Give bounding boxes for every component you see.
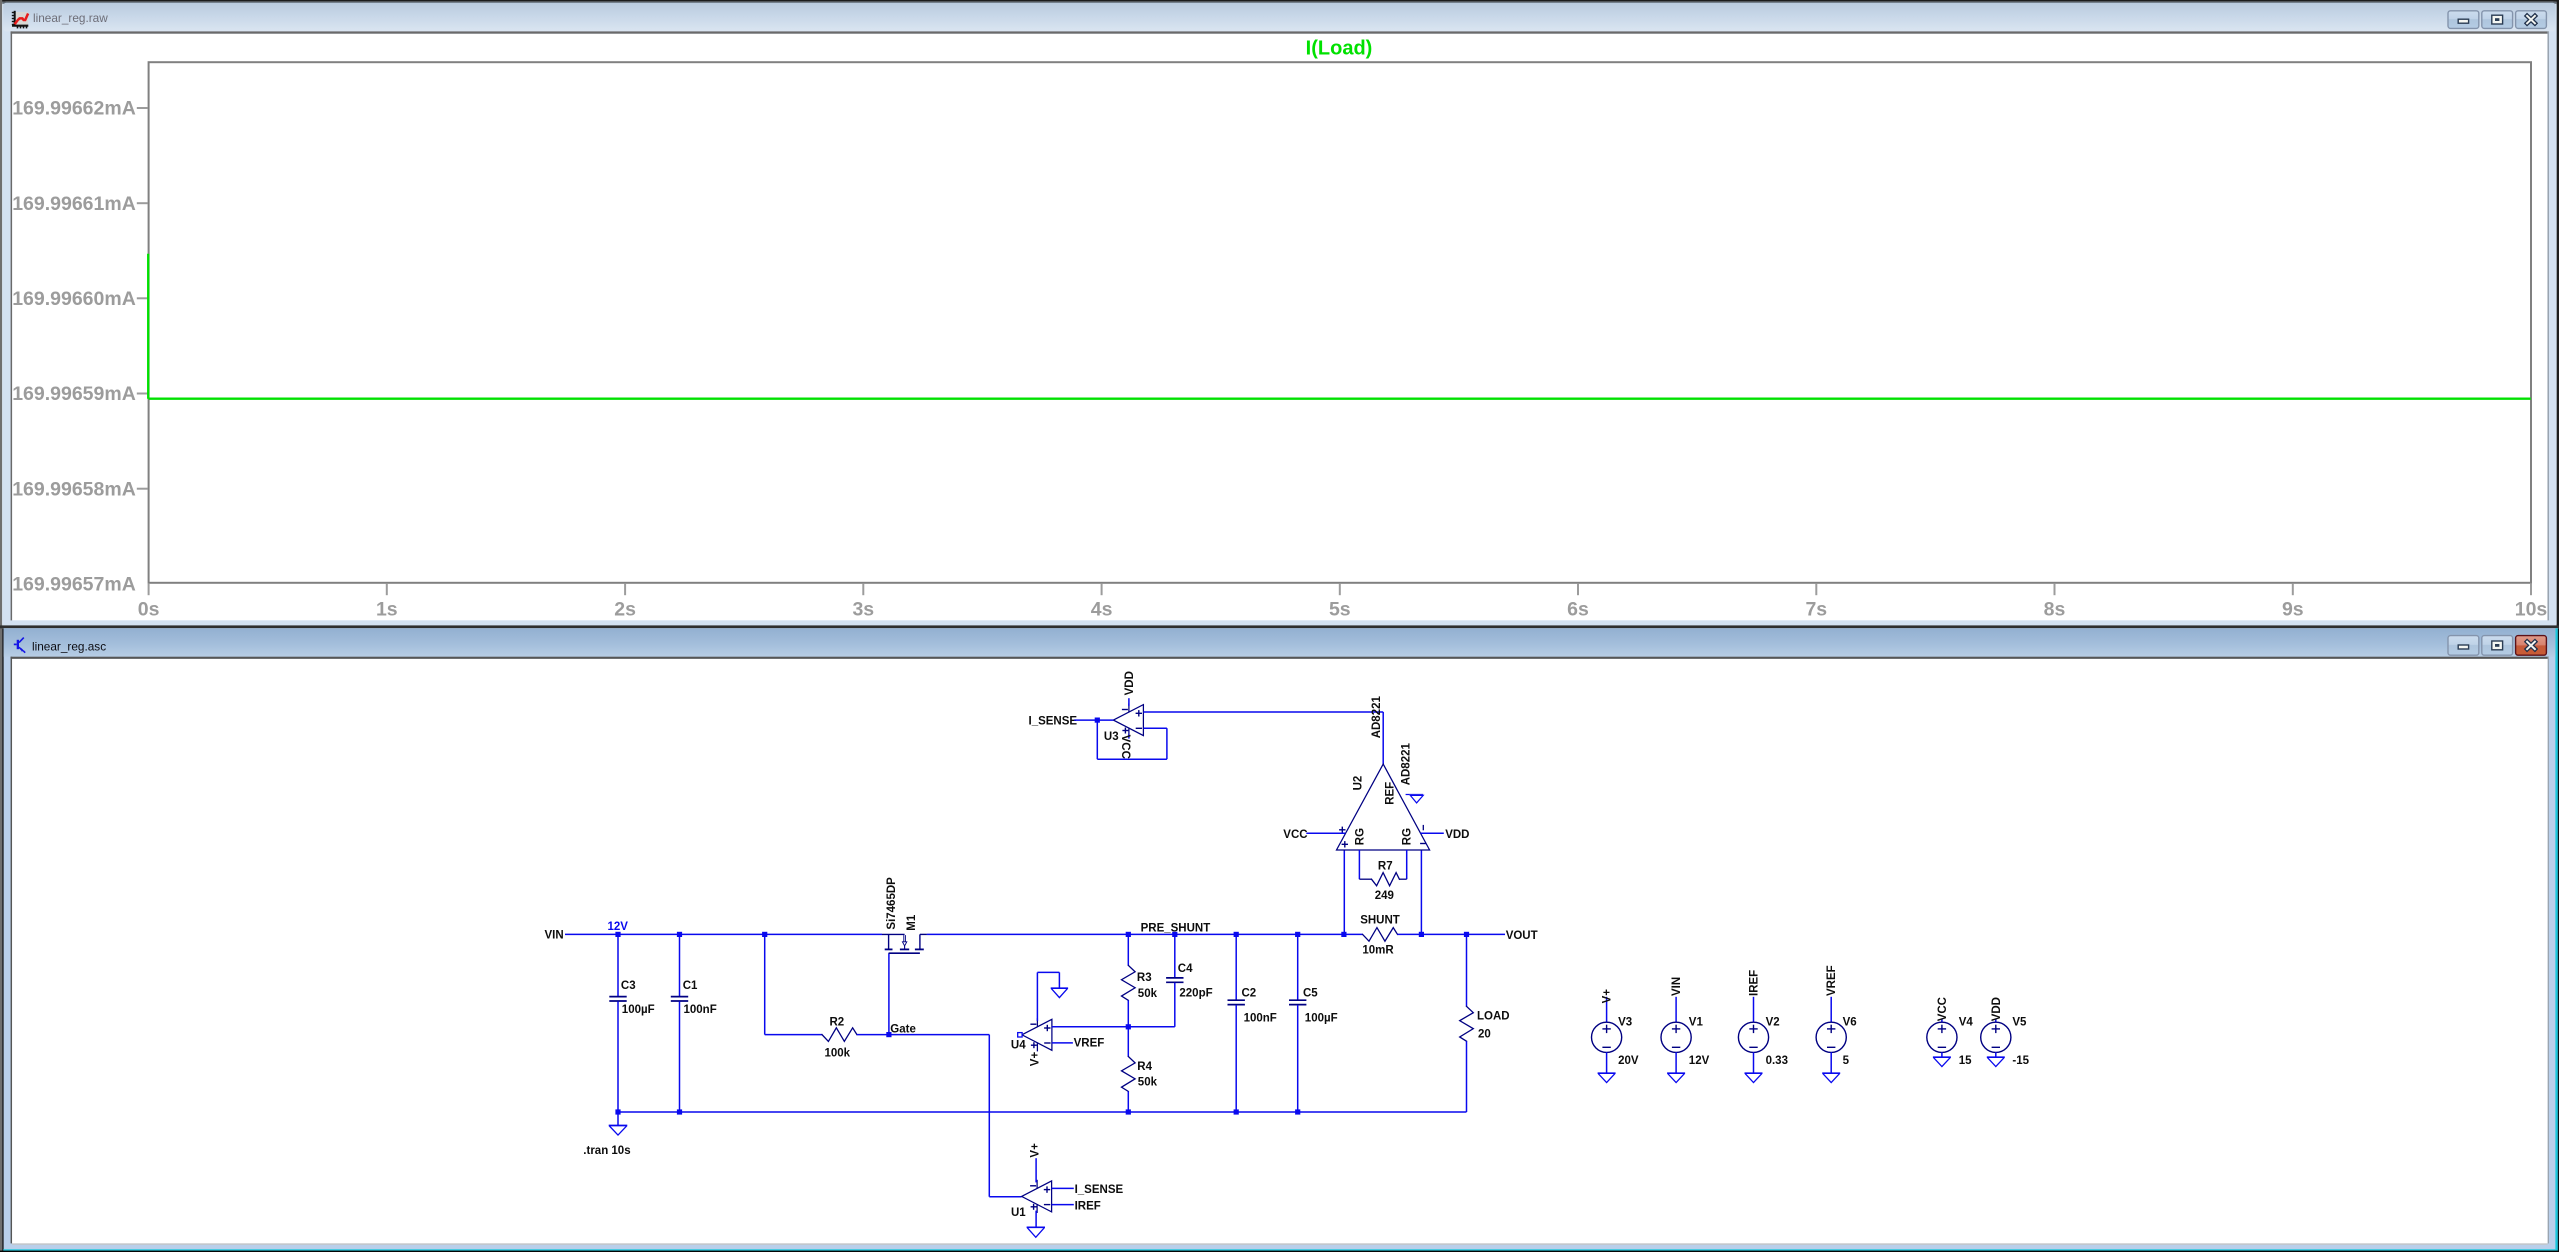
svg-text:12V: 12V (608, 921, 629, 933)
op-amp U1 (1011, 1180, 1052, 1219)
waveform window title text (33, 11, 108, 25)
svg-text:V4: V4 (1959, 1017, 1974, 1029)
svg-text:100nF: 100nF (684, 1004, 717, 1016)
svg-text:R7: R7 (1378, 861, 1393, 873)
schematic window close button (2516, 636, 2547, 656)
svg-text:V3: V3 (1618, 1017, 1632, 1029)
voltage source V6 5 (1816, 965, 1857, 1082)
svg-text:R2: R2 (830, 1016, 845, 1028)
svg-text:VDD: VDD (1124, 671, 1136, 695)
node Gate junction (886, 1024, 916, 1038)
svg-text:U1: U1 (1011, 1207, 1026, 1219)
svg-text:2s: 2s (614, 598, 636, 620)
svg-text:U2: U2 (1353, 776, 1365, 791)
op-amp U3 (1104, 704, 1144, 744)
resistor R3 50k (1122, 934, 1158, 1026)
resistor R2 100k (822, 1016, 889, 1059)
capacitor C1 (671, 932, 717, 1112)
x axis tick labels (138, 584, 2548, 621)
resistor SHUNT 10mR (1341, 915, 1424, 957)
svg-text:3s: 3s (852, 598, 874, 620)
svg-text:169.99660mA: 169.99660mA (12, 288, 136, 310)
waveform window icon (12, 11, 29, 29)
svg-text:REF: REF (1384, 782, 1396, 805)
svg-text:1s: 1s (376, 598, 398, 620)
svg-text:IREF: IREF (1749, 970, 1761, 996)
y axis tick labels (12, 98, 147, 596)
svg-text:VCC: VCC (1283, 829, 1307, 841)
svg-text:Si7465DP: Si7465DP (886, 877, 898, 930)
svg-text:V1: V1 (1689, 1017, 1704, 1029)
transistor M1 Si7465DP (882, 877, 927, 953)
wire U3 VDD stub (1124, 671, 1136, 706)
svg-text:9s: 9s (2282, 598, 2304, 620)
voltage source V5 -15 VDD (1981, 997, 2030, 1067)
resistor LOAD 20 (1460, 934, 1510, 1112)
svg-text:10mR: 10mR (1362, 945, 1394, 957)
svg-text:100µF: 100µF (622, 1004, 655, 1016)
svg-text:V5: V5 (2012, 1017, 2027, 1029)
svg-text:10s: 10s (2515, 598, 2548, 620)
svg-text:LOAD: LOAD (1477, 1011, 1510, 1023)
comment 12V annotation (608, 921, 629, 933)
svg-text:12V: 12V (1689, 1055, 1710, 1067)
schematic window minimize button (2448, 636, 2479, 656)
wire U4 non-inverting input to VREF (1052, 1037, 1104, 1049)
svg-text:C5: C5 (1303, 988, 1318, 1000)
ground main (609, 1112, 628, 1135)
wire U1 I_SENSE output pin (1052, 1184, 1124, 1196)
svg-text:M1: M1 (906, 914, 918, 931)
ground near U4 (1051, 988, 1068, 997)
svg-text:IREF: IREF (1075, 1200, 1101, 1212)
waveform window minimize button (2448, 11, 2479, 29)
waveform client area (11, 31, 2549, 620)
svg-text:C3: C3 (621, 980, 636, 992)
svg-text:RG: RG (1401, 828, 1413, 845)
waveform window restore button (2482, 11, 2513, 29)
svg-text:C1: C1 (683, 980, 698, 992)
directive .tran 10s (583, 1145, 630, 1157)
wire VCC to U2 (1283, 829, 1345, 841)
waveform window frame (2, 2, 2556, 628)
schematic window icon (14, 638, 25, 653)
svg-text:I_SENSE: I_SENSE (1029, 715, 1078, 727)
resistor R4 50k (1122, 1027, 1158, 1112)
svg-text:V+: V+ (1602, 989, 1614, 1004)
wire VOUT (1421, 930, 1537, 942)
svg-text:.tran 10s: .tran 10s (583, 1145, 630, 1157)
wire VIN rail right of M1 (927, 933, 1344, 935)
svg-text:R3: R3 (1137, 972, 1152, 984)
svg-text:VIN: VIN (1671, 977, 1683, 996)
waveform window close button (2516, 11, 2547, 29)
ground below U1 (1027, 1227, 1045, 1237)
svg-text:-15: -15 (2012, 1055, 2029, 1067)
svg-text:SHUNT: SHUNT (1360, 915, 1400, 927)
svg-text:VCC: VCC (1119, 735, 1131, 759)
svg-text:20: 20 (1478, 1028, 1491, 1040)
svg-text:4s: 4s (1091, 598, 1113, 620)
op-amp U4 (1011, 1018, 1052, 1066)
wire Gate to M1 gate (888, 953, 890, 1034)
svg-text:V2: V2 (1766, 1017, 1780, 1029)
svg-text:50k: 50k (1138, 1077, 1158, 1089)
svg-text:5: 5 (1843, 1055, 1850, 1067)
svg-text:U3: U3 (1104, 731, 1119, 743)
resistor R7 249 (1359, 850, 1406, 902)
waveform window title bar (3, 3, 2555, 32)
svg-text:V+: V+ (1030, 1052, 1042, 1067)
wire U4 top power to ground (1037, 972, 1059, 1021)
svg-text:I_SENSE: I_SENSE (1075, 1184, 1124, 1196)
capacitor C2 100nF (1228, 932, 1277, 1112)
wire Gate to U1 output (889, 1035, 1022, 1197)
wire U2 to VDD (1421, 829, 1470, 841)
svg-text:VDD: VDD (1991, 997, 2003, 1021)
wire VIN rail left (565, 933, 882, 935)
plot pane frame (149, 62, 2531, 583)
svg-text:AD8221: AD8221 (1371, 696, 1383, 739)
voltage source V2 0.33 (1738, 970, 1788, 1083)
svg-text:C2: C2 (1242, 988, 1257, 1000)
svg-text:U4: U4 (1011, 1040, 1026, 1052)
svg-text:169.99659mA: 169.99659mA (12, 383, 136, 405)
svg-text:VIN: VIN (545, 929, 564, 941)
svg-text:220pF: 220pF (1179, 988, 1212, 1000)
node feedback junction (1126, 1024, 1131, 1029)
trace I(Load) green (148, 254, 2531, 399)
svg-text:Gate: Gate (890, 1024, 916, 1036)
wire U3 feedback loop (1097, 720, 1167, 759)
svg-text:50k: 50k (1138, 988, 1158, 1000)
svg-text:VOUT: VOUT (1506, 930, 1538, 942)
schematic client area (11, 657, 2549, 1245)
svg-text:0s: 0s (138, 598, 160, 620)
svg-text:C4: C4 (1178, 963, 1193, 975)
wire dropper to R2 (762, 932, 822, 1035)
voltage source V3 20V (1592, 989, 1639, 1083)
svg-text:V+: V+ (1029, 1143, 1041, 1158)
svg-text:169.99657mA: 169.99657mA (12, 574, 136, 596)
node PRE_SHUNT (1126, 922, 1211, 937)
schematic window title bar (4, 628, 2556, 656)
svg-text:linear_reg.asc: linear_reg.asc (32, 640, 106, 654)
schematic window title text (32, 640, 106, 654)
voltage source V4 15 VCC (1927, 997, 1974, 1067)
REF pin marker (1406, 795, 1424, 803)
wire U4 inverting input to divider (1052, 1026, 1128, 1028)
svg-text:100µF: 100µF (1305, 1013, 1338, 1025)
plot title I(Load) (1306, 38, 1373, 60)
capacitor C4 220pF (1128, 934, 1212, 1026)
svg-text:R4: R4 (1137, 1061, 1152, 1073)
svg-text:20V: 20V (1618, 1055, 1639, 1067)
svg-text:V6: V6 (1843, 1017, 1857, 1029)
svg-text:100k: 100k (825, 1047, 851, 1059)
svg-text:5s: 5s (1329, 598, 1351, 620)
svg-text:6s: 6s (1567, 598, 1589, 620)
schematic window frame (0, 625, 2559, 1252)
svg-text:0.33: 0.33 (1766, 1055, 1788, 1067)
svg-text:I(Load): I(Load) (1306, 38, 1373, 60)
node I_SENSE top (1029, 715, 1114, 727)
svg-text:VREF: VREF (1074, 1037, 1105, 1049)
wire U3 VCC stub (1119, 734, 1131, 759)
wire U3 to U2 output (1143, 712, 1383, 764)
svg-text:VREF: VREF (1826, 965, 1838, 996)
bottom ground rail (615, 1109, 1466, 1114)
svg-text:VCC: VCC (1937, 997, 1949, 1021)
wire U1 V+ stub (1029, 1143, 1041, 1182)
svg-text:169.99662mA: 169.99662mA (12, 98, 136, 120)
svg-text:249: 249 (1375, 890, 1394, 902)
svg-text:AD8221: AD8221 (1401, 743, 1413, 786)
op-amp U2 AD8221 (1337, 696, 1430, 850)
schematic window restore button (2482, 636, 2513, 656)
svg-text:15: 15 (1959, 1055, 1972, 1067)
svg-text:7s: 7s (1805, 598, 1827, 620)
svg-text:RG: RG (1354, 828, 1366, 845)
capacitor C5 100uF (1289, 932, 1338, 1112)
svg-text:VDD: VDD (1445, 829, 1469, 841)
wire U1 bottom to ground (1035, 1211, 1037, 1227)
svg-text:169.99658mA: 169.99658mA (12, 478, 136, 500)
node VIN label (545, 929, 564, 941)
svg-text:100nF: 100nF (1244, 1013, 1277, 1025)
capacitor C3 (609, 932, 654, 1112)
svg-text:linear_reg.raw: linear_reg.raw (33, 11, 108, 25)
wire U2 pins to shunt (1344, 850, 1421, 934)
wire U1 IREF pin (1052, 1200, 1101, 1212)
svg-text:8s: 8s (2044, 598, 2066, 620)
svg-text:169.99661mA: 169.99661mA (12, 193, 136, 215)
voltage source V1 12V (1661, 977, 1710, 1083)
